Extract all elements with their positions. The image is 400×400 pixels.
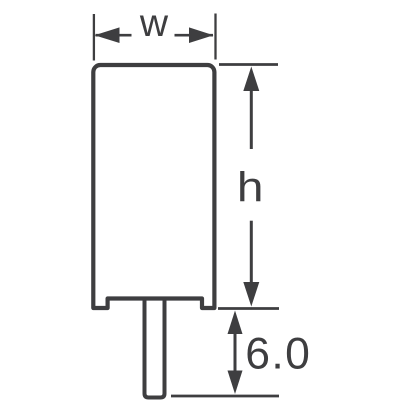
svg-text:6.0: 6.0 (245, 330, 311, 379)
svg-text:w: w (139, 2, 169, 45)
svg-text:h: h (237, 163, 264, 211)
